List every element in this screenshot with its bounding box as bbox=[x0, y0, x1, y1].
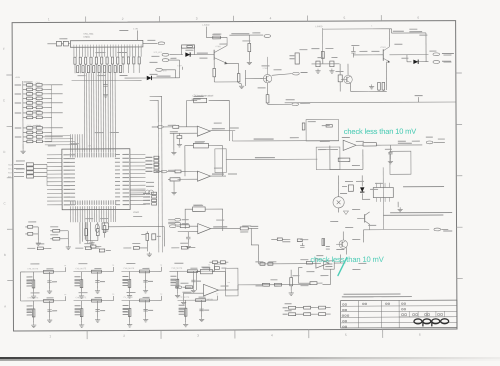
ground R693 bbox=[290, 291, 292, 293]
connector input CH4 bbox=[175, 286, 182, 289]
resistor array row 2 bbox=[77, 66, 79, 73]
resistor R677 bbox=[266, 95, 269, 103]
wire VT606 bbox=[342, 232, 344, 240]
MCU bottom pins bbox=[70, 206, 72, 209]
wires below resistor array bbox=[74, 64, 76, 73]
svg-text:4: 4 bbox=[270, 16, 272, 20]
svg-text:C649: C649 bbox=[36, 130, 41, 132]
wire diode to jack bbox=[418, 61, 428, 63]
label after XS604 bbox=[443, 231, 452, 232]
left bus joint bbox=[51, 85, 53, 141]
note using text bbox=[344, 294, 401, 295]
vertical drop 426 bbox=[425, 33, 427, 55]
note text small bbox=[383, 215, 443, 216]
diode VD606 bbox=[360, 187, 364, 192]
svg-text:check less than 10 mV: check less than 10 mV bbox=[344, 127, 416, 136]
connector input CH1 bbox=[157, 126, 163, 129]
wire BA5 bbox=[162, 69, 175, 71]
filter label smudges bbox=[26, 276, 32, 277]
wire CN601 to J1 bbox=[143, 42, 157, 44]
op-amp N601A bbox=[197, 126, 210, 136]
svg-text:A-5V: A-5V bbox=[16, 76, 21, 79]
jumper row 1 bbox=[283, 307, 288, 308]
audio rail L bbox=[226, 158, 317, 160]
svg-text:C644: C644 bbox=[36, 100, 41, 102]
connector XS605 bbox=[175, 218, 181, 221]
ground R674 bbox=[241, 84, 243, 86]
svg-text:VFD_7BG: VFD_7BG bbox=[83, 34, 93, 36]
connector VFD_KEY bbox=[162, 53, 169, 56]
svg-text:CH3_MUTE: CH3_MUTE bbox=[123, 268, 134, 270]
svg-text:CPU: CPU bbox=[88, 146, 93, 148]
svg-text:ics: ics bbox=[227, 282, 229, 284]
ruler tick marks left bbox=[6, 74, 12, 76]
vertical feed 383 bbox=[382, 167, 384, 229]
RC filter row C659 bbox=[23, 127, 27, 129]
resistor R688 bbox=[348, 185, 353, 191]
resistor R668 bbox=[274, 283, 281, 286]
svg-text:CH1_MUTE: CH1_MUTE bbox=[27, 268, 38, 270]
svg-text:CH4_MUTE: CH4_MUTE bbox=[171, 268, 182, 270]
capacitor C668 bbox=[297, 239, 302, 242]
MCU left pins bbox=[47, 154, 62, 156]
connector input CH3 bbox=[169, 225, 176, 228]
capacitor C605 bbox=[103, 84, 107, 86]
MCU top pin pads bbox=[69, 149, 71, 153]
wire N605 fb bbox=[298, 268, 305, 284]
op-amp N601B bbox=[197, 171, 210, 181]
wire N603 inputs bbox=[320, 140, 330, 142]
jumper row 2 bbox=[283, 314, 288, 315]
ground crystal bbox=[91, 241, 93, 243]
audio rail R bbox=[232, 140, 338, 142]
power bus vertical bbox=[322, 28, 324, 64]
IC N604 pins bbox=[375, 183, 377, 188]
resistor R673 bbox=[213, 68, 216, 76]
wire N601A output bbox=[210, 129, 235, 131]
svg-text:C660: C660 bbox=[27, 134, 32, 136]
diode VD604 bbox=[147, 76, 152, 80]
RC filter row C660 bbox=[23, 136, 27, 138]
feedback rect right rail bbox=[306, 120, 339, 141]
MCU right pins bbox=[130, 153, 145, 155]
RC filter row R644 bbox=[23, 116, 27, 118]
vertical 363 bbox=[362, 230, 364, 243]
RC filter row C658 bbox=[23, 112, 27, 114]
resistor R661 bbox=[193, 207, 206, 211]
diode VD605 bbox=[413, 60, 418, 64]
MCU inner pin names bbox=[70, 153, 71, 158]
connector J1 bbox=[158, 42, 165, 45]
RC filter row R643 bbox=[23, 106, 27, 108]
loop rect N602B bbox=[225, 268, 238, 296]
capacitor C672 bbox=[316, 61, 320, 67]
svg-text:VFD_KEY: VFD_KEY bbox=[153, 52, 162, 54]
component value labels bbox=[59, 37, 67, 40]
svg-text:IC600: IC600 bbox=[133, 212, 140, 214]
capacitor C611 bbox=[28, 232, 33, 235]
ground C609 bbox=[148, 252, 150, 254]
op-amp N603 bbox=[343, 140, 356, 150]
cap C681 bbox=[388, 151, 392, 153]
resistor R693 bbox=[290, 278, 293, 286]
connector XS606 bbox=[175, 222, 181, 225]
shield box K2 bbox=[316, 147, 340, 170]
wire top right entry bbox=[372, 28, 391, 30]
ground C611 bbox=[37, 241, 39, 243]
capacitor C673 bbox=[330, 61, 334, 67]
wire M601 bbox=[337, 176, 339, 197]
signal bus vertical A bbox=[157, 122, 160, 252]
op-amp N605 bbox=[316, 258, 329, 268]
capacitor C609 bbox=[152, 234, 156, 240]
wire N605 out bbox=[334, 262, 345, 264]
wire 5VDD rail bbox=[206, 36, 227, 38]
svg-text:SDA: SDA bbox=[8, 164, 13, 167]
wire C611 join bbox=[37, 227, 39, 241]
rail to right border bbox=[285, 101, 456, 104]
ruler tick marks right bbox=[456, 72, 462, 74]
ground R676 bbox=[248, 60, 250, 62]
crystal Z601 bbox=[95, 224, 99, 232]
wire N601B in2 bbox=[178, 178, 198, 180]
wire N603 out bbox=[356, 144, 363, 146]
wire VT602 base bbox=[245, 78, 262, 80]
svg-text:C658: C658 bbox=[27, 110, 32, 112]
RC filter row R641 bbox=[23, 93, 27, 95]
wire N602B output long bbox=[219, 289, 238, 291]
drawing border frame bbox=[12, 21, 457, 331]
bus wire under array bbox=[72, 79, 142, 81]
ruler tick marks bottom bbox=[86, 331, 88, 340]
feedback loop N602A bbox=[185, 209, 193, 229]
MCU top-left bend wires bbox=[45, 135, 70, 137]
RC filter row R646 bbox=[23, 140, 27, 142]
wire output down to rail bbox=[231, 131, 233, 141]
resistor R652 bbox=[163, 126, 172, 128]
wire rail to 4558 bbox=[259, 263, 321, 265]
svg-text:CH2_MUTE: CH2_MUTE bbox=[75, 268, 86, 270]
svg-text:TV headphone circuit: TV headphone circuit bbox=[194, 94, 214, 97]
svg-text:L-5VDD: L-5VDD bbox=[315, 26, 323, 28]
ground input bias bbox=[173, 133, 175, 150]
capacitor C603 bbox=[85, 236, 87, 241]
resistor R670 bbox=[322, 239, 325, 246]
cap C675 bbox=[351, 50, 355, 52]
crystal G601 bbox=[85, 229, 88, 236]
connector BA5 bbox=[156, 68, 163, 71]
svg-text:E: E bbox=[3, 99, 5, 103]
resistor R609 bbox=[146, 233, 149, 240]
svg-text:C651: C651 bbox=[36, 139, 41, 141]
svg-text:6: 6 bbox=[419, 333, 421, 337]
wire N601B output bbox=[211, 175, 226, 177]
svg-text:CR_MUTE: CR_MUTE bbox=[180, 297, 190, 299]
wire VT602 to P603 bbox=[272, 74, 292, 76]
resistor R685 bbox=[363, 143, 376, 146]
RC filter row R645 bbox=[23, 131, 27, 133]
svg-text:VT601: VT601 bbox=[215, 46, 221, 48]
svg-text:2: 2 bbox=[122, 17, 124, 21]
wire N602A in2 bbox=[178, 231, 198, 233]
svg-text:3: 3 bbox=[197, 334, 199, 338]
resistor R691 bbox=[306, 261, 312, 264]
capacitor C671 bbox=[295, 53, 299, 64]
vertical drop 392 bbox=[391, 29, 393, 33]
svg-text:2: 2 bbox=[123, 334, 125, 338]
wire to connector left bbox=[47, 43, 56, 45]
below-MCU pin extensions bbox=[79, 222, 81, 243]
svg-text:1: 1 bbox=[48, 17, 50, 21]
resistor R657 bbox=[170, 178, 180, 181]
op-amp N602B bbox=[203, 284, 218, 296]
svg-text:R645: R645 bbox=[27, 130, 32, 132]
MCU side inner labels bbox=[70, 154, 75, 155]
shield box K3 bbox=[390, 151, 411, 174]
svg-text:C641: C641 bbox=[36, 87, 41, 89]
resistor R604 bbox=[103, 226, 106, 233]
left supply bus bbox=[22, 81, 24, 144]
svg-text:B: B bbox=[4, 253, 6, 257]
resistor R682 bbox=[382, 82, 385, 90]
ground left bus bbox=[22, 144, 24, 149]
resistor loop R672 bbox=[182, 45, 195, 48]
wire rail y29 stub bbox=[323, 28, 373, 30]
connector XS602 bbox=[433, 61, 440, 64]
wire inverting input bbox=[170, 132, 197, 134]
svg-text:5: 5 bbox=[343, 16, 345, 20]
wire N602B in2 bbox=[184, 292, 204, 294]
wire to J2 bbox=[169, 59, 180, 61]
transistor VT604 bbox=[344, 75, 352, 83]
stage mark dividers bbox=[408, 311, 410, 317]
ground VT603 bbox=[371, 84, 373, 86]
svg-text:6: 6 bbox=[417, 16, 419, 20]
wire bus to MCU left bbox=[46, 164, 48, 185]
svg-text:4: 4 bbox=[271, 333, 273, 337]
wire diode to base bbox=[190, 53, 214, 55]
wire R612 down bbox=[67, 231, 69, 245]
svg-text:C657: C657 bbox=[27, 100, 32, 102]
connector P601 bbox=[264, 35, 271, 38]
svg-text:C655: C655 bbox=[27, 82, 32, 84]
wire remote bbox=[125, 77, 147, 79]
filter extra parts row1 col4 tail bbox=[212, 261, 217, 264]
wire out stubs bbox=[168, 219, 174, 221]
transistor VT601 bbox=[213, 50, 215, 60]
motor M601 bbox=[333, 197, 344, 208]
capacitor C652 bbox=[177, 136, 182, 139]
feedback loop N601B bbox=[185, 146, 194, 177]
capacitor C662 bbox=[186, 236, 190, 238]
inductor L601 bbox=[102, 223, 108, 230]
connector CN601 bbox=[70, 40, 143, 47]
transistor VT606 bbox=[339, 240, 347, 248]
svg-text:C650: C650 bbox=[36, 134, 41, 136]
ground under C605 bbox=[105, 93, 107, 95]
connector P602 bbox=[292, 103, 299, 106]
transistor VT605 bbox=[364, 214, 366, 222]
bus bend top bbox=[150, 100, 159, 122]
wire bottom right rail bbox=[363, 229, 429, 231]
resistor R655 bbox=[193, 143, 208, 148]
resistor R608 bbox=[99, 249, 104, 252]
svg-text:R644: R644 bbox=[27, 115, 32, 117]
signal bus vertical B bbox=[161, 122, 164, 252]
filter grid feed wire bbox=[20, 271, 25, 273]
wire rail bend bbox=[251, 228, 258, 264]
ruler tick marks top bbox=[85, 16, 87, 22]
svg-text:R642: R642 bbox=[27, 96, 32, 98]
microcontroller IC600 body bbox=[62, 149, 130, 210]
connector input CH2 bbox=[161, 170, 167, 173]
MCU top pin wires bbox=[69, 134, 71, 149]
wire VD606 bbox=[361, 175, 363, 186]
resistor R651 bbox=[194, 98, 207, 102]
svg-text:C642: C642 bbox=[36, 91, 41, 93]
left row net names bbox=[15, 83, 22, 86]
wire top rail 1 bbox=[229, 34, 263, 36]
svg-text:C656: C656 bbox=[27, 87, 32, 89]
diode VD603 bbox=[185, 52, 190, 56]
resistor R671 bbox=[213, 36, 221, 39]
svg-text:C647: C647 bbox=[36, 115, 41, 117]
wire to caps bbox=[392, 32, 426, 34]
capacitor C610 bbox=[28, 225, 33, 228]
label N604 note bbox=[403, 186, 444, 187]
resistor R663 bbox=[240, 227, 248, 230]
resistor R611 bbox=[53, 229, 60, 232]
connector P603 bbox=[293, 72, 300, 75]
svg-text:C640: C640 bbox=[36, 82, 41, 84]
ground C652 bbox=[178, 142, 180, 144]
wires connector to resistor array bbox=[73, 47, 75, 57]
connector XS604 bbox=[434, 228, 441, 231]
resistor R692 bbox=[310, 282, 317, 285]
IC box N605 bbox=[324, 261, 335, 269]
title block table bbox=[341, 300, 457, 328]
wire key to diode bbox=[169, 54, 182, 56]
resistor R679 bbox=[338, 75, 342, 82]
feedback loop N601 bbox=[187, 101, 198, 127]
ground N601B bbox=[173, 181, 175, 190]
svg-text:CH5_MUTE: CH5_MUTE bbox=[28, 297, 39, 299]
resistor R669 bbox=[277, 238, 282, 241]
wire emitter rail bbox=[214, 81, 238, 83]
feedback loop N602B bbox=[196, 272, 200, 291]
feedback loop N603 bbox=[330, 145, 363, 169]
wire to output jack bbox=[389, 54, 428, 56]
resistor array row 1 bbox=[74, 57, 76, 64]
resistor RP2 bbox=[63, 41, 68, 46]
RC filter row C656 bbox=[23, 88, 27, 90]
annotation check mark bbox=[338, 257, 347, 275]
note text 2 wide bbox=[390, 212, 452, 213]
net label stubs row 2 bbox=[143, 193, 150, 194]
shield box K1 bbox=[215, 149, 226, 173]
resistor R662 bbox=[177, 225, 180, 227]
title row labels left bbox=[343, 304, 345, 306]
wire N602A output bbox=[211, 227, 240, 229]
ground C662 bbox=[187, 244, 189, 246]
svg-text:F: F bbox=[3, 47, 5, 51]
wire cap rail bbox=[311, 63, 339, 65]
svg-text:R643: R643 bbox=[27, 105, 32, 107]
RC filter row C657 bbox=[23, 102, 27, 104]
RC filter row R642 bbox=[23, 97, 27, 99]
arrow symbol bbox=[343, 211, 348, 215]
svg-text:L-3V: L-3V bbox=[133, 28, 138, 30]
wire under MCU rail bbox=[108, 226, 164, 228]
wire VT603 emitter bbox=[386, 62, 388, 90]
wire VT603 collector bbox=[388, 29, 390, 47]
resistor R656 bbox=[167, 170, 175, 172]
ground N604 bbox=[397, 202, 399, 207]
connector XS603 bbox=[426, 141, 433, 144]
scanner page bottom edge shadow bbox=[0, 0, 1, 1]
svg-text:CN601: CN601 bbox=[83, 37, 91, 39]
resistor R612 bbox=[53, 237, 60, 240]
svg-text:VT603: VT603 bbox=[380, 47, 386, 49]
resistor R676 bbox=[248, 43, 251, 51]
crystal X601 bbox=[145, 190, 150, 195]
svg-text:R646: R646 bbox=[27, 139, 32, 141]
resistor R665 bbox=[200, 269, 212, 273]
OPPO logo bbox=[414, 319, 422, 324]
svg-text:L-5VDD: L-5VDD bbox=[202, 25, 210, 27]
note above title block bbox=[342, 296, 412, 297]
wire filter row1 to row2 col4 bbox=[209, 270, 214, 272]
op-amp N602A bbox=[198, 224, 211, 234]
wire diode branch bbox=[406, 55, 408, 62]
mute control stubs bbox=[27, 248, 35, 249]
wire to XS603 bbox=[376, 144, 422, 146]
stub on rail bbox=[418, 97, 420, 102]
resistor RP1 bbox=[56, 41, 61, 46]
wire MCU to crystal bbox=[85, 222, 87, 228]
svg-text:A: A bbox=[4, 305, 6, 309]
svg-text:3: 3 bbox=[196, 17, 198, 21]
transistor VT602 bbox=[263, 74, 271, 82]
svg-text:5: 5 bbox=[345, 333, 347, 337]
svg-text:CH6_MUTE: CH6_MUTE bbox=[76, 297, 87, 299]
svg-text:C659: C659 bbox=[27, 125, 32, 127]
svg-text:R641: R641 bbox=[27, 91, 32, 93]
wire N605 right drop bbox=[329, 269, 331, 284]
resistor R678 bbox=[321, 51, 324, 58]
resistor R607 bbox=[91, 245, 96, 248]
svg-text:CL_MUTE: CL_MUTE bbox=[124, 297, 134, 299]
svg-text:1: 1 bbox=[49, 334, 51, 338]
IC N604 body bbox=[373, 187, 393, 197]
connector XS601 bbox=[433, 53, 440, 56]
title header texts bbox=[363, 303, 365, 305]
RC filter row C655 bbox=[23, 84, 27, 86]
resistor R667 bbox=[262, 283, 269, 286]
connector J2 bbox=[162, 59, 169, 62]
transistor VT603 bbox=[382, 49, 384, 60]
svg-text:C645: C645 bbox=[36, 105, 41, 107]
wire VT602 collector bbox=[266, 57, 268, 75]
wire emitter bottom bbox=[369, 90, 387, 92]
wire VT602 out bbox=[268, 103, 292, 105]
svg-text:check less than 10 mV: check less than 10 mV bbox=[310, 255, 384, 264]
svg-text:C643: C643 bbox=[36, 96, 41, 98]
ground R612 bbox=[67, 245, 69, 247]
ground C681 bbox=[389, 159, 391, 161]
net label stubs row 1 bbox=[145, 157, 152, 158]
resistor R681 bbox=[378, 82, 381, 90]
